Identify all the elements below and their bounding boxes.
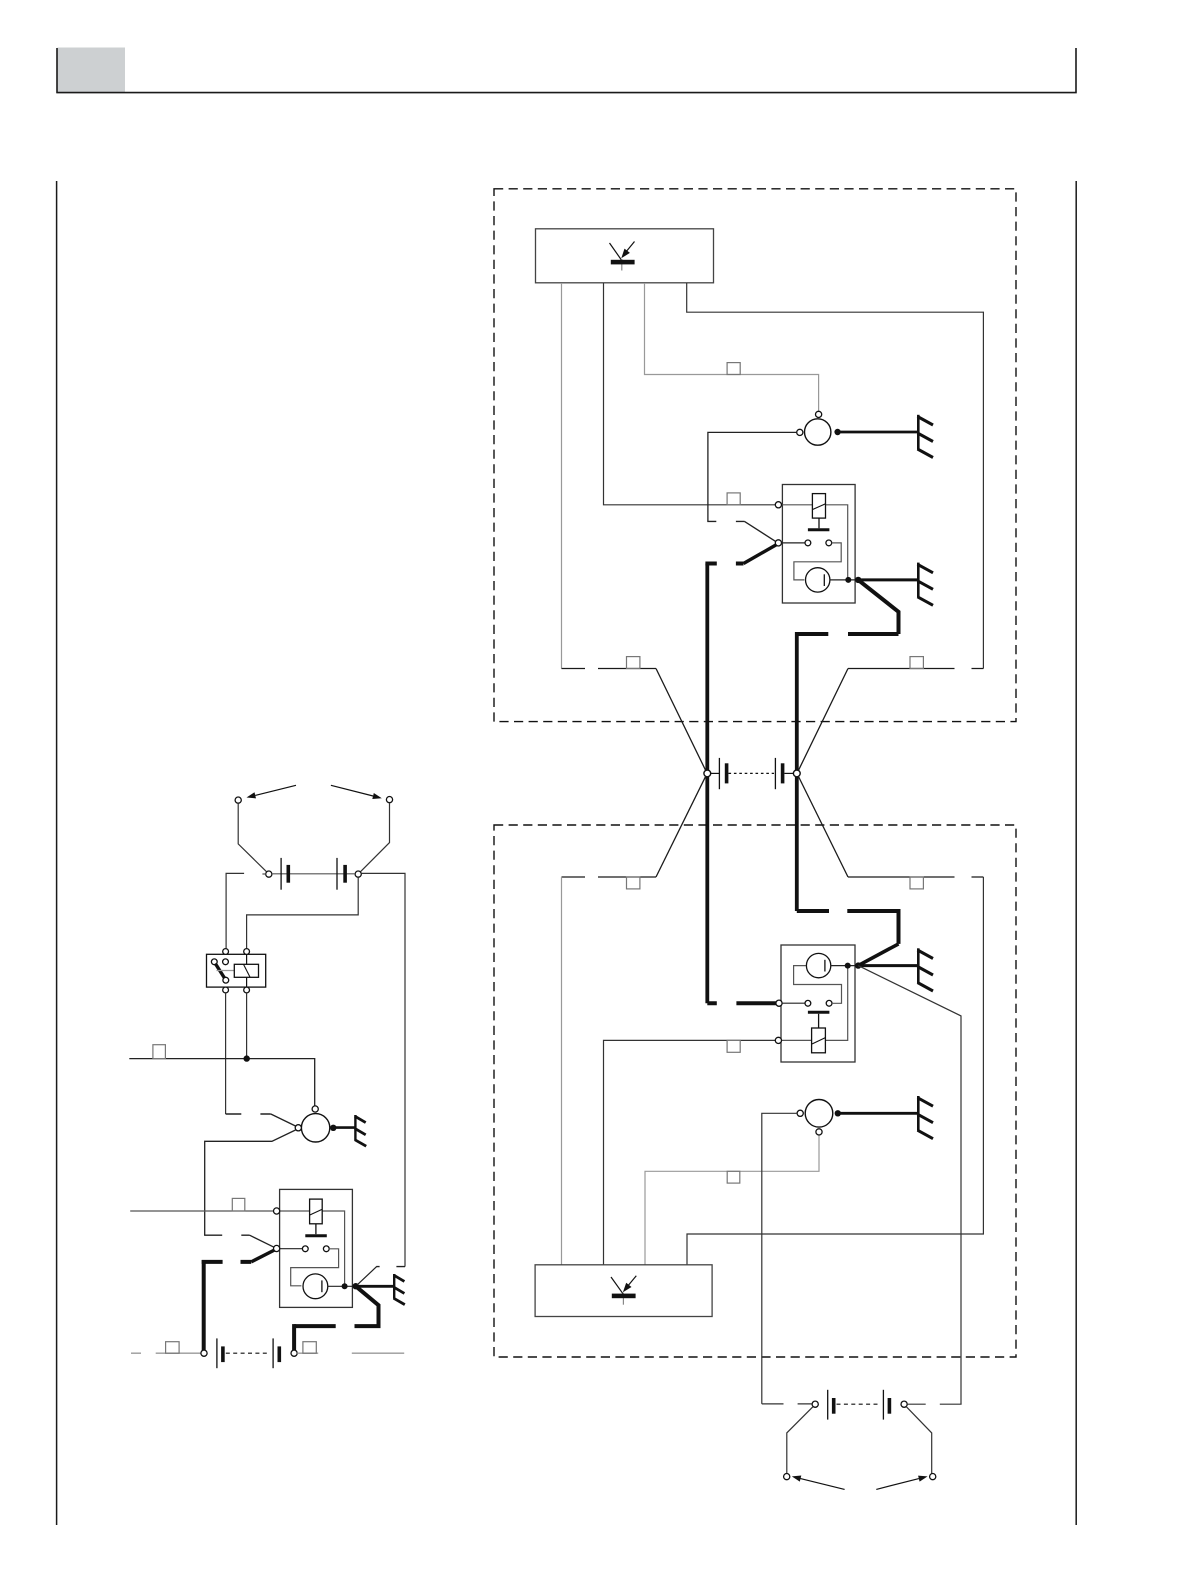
relay motor (bottom) [806,953,830,977]
junction dot (outer) [855,577,861,583]
junction dot [244,1055,250,1061]
relay terminal bottom-right [244,987,250,993]
funnel wire left [656,776,706,877]
motor terminal bottom [816,1129,822,1135]
connector square [627,877,640,889]
coil feed wire through box (bottom) [779,968,848,1041]
coil terminal (left relay) [274,1208,280,1214]
top rule [57,48,1077,93]
contact terminal (left relay) [274,1245,280,1251]
funnel wire left [656,669,706,771]
wire from relay to junction dot [246,993,248,1059]
connector square [910,657,923,669]
motor terminal top [816,411,822,417]
switch pivot [211,959,217,965]
relay terminal top-left [223,949,229,955]
bottom box top edge, left connector [562,876,657,878]
funnel wire right [798,669,848,771]
arm end contact [223,977,229,983]
junction dot (inner) [342,1283,348,1289]
contact wire [280,1248,303,1250]
contact b (bottom) [826,1000,832,1006]
relay terminal top-right [244,949,250,955]
mirror face terminal left [784,1474,790,1480]
left bracket of battery connector [226,873,244,948]
left page border [56,181,58,1525]
battery connector (bottom) right bracket [907,1403,961,1405]
bottom feed line right segments [297,1352,404,1354]
thick wire down to battery (left relay) [202,1260,206,1351]
free motor (bottom box) [805,1100,833,1128]
junction dot [330,1125,336,1131]
battery symbol (bottom) [827,1390,829,1420]
funnel wire right [798,776,848,877]
right thick vertical [795,632,799,911]
connector square on sw2 [727,493,740,505]
mirror arrow right (bottom) [876,1479,919,1490]
connector square on sw3 [727,1171,740,1183]
left motor top terminal [312,1106,318,1112]
wire sw2 (to relay coil, top) [604,283,776,505]
ground lead (top motor) [840,431,918,434]
wire sw3 (to motor, top) [645,283,819,411]
right side wires of battery connector [361,873,405,1266]
ground lead (bottom motor) [840,1112,918,1115]
mirror arrow left (bottom) [801,1479,845,1490]
left thick vertical [705,564,709,1004]
wire sw4 (right loop, top) [687,283,984,669]
coil ground inside box (left relay) [315,1224,317,1234]
junction dot (inner) [845,963,851,969]
coil terminal (top relay) [775,502,781,508]
wire motor-left down to battery [762,1113,797,1404]
connector square on feed line [153,1045,166,1059]
coil ground inside box (bottom) [818,1014,820,1028]
battery connector circle right [355,871,361,877]
motor terminal left [797,1110,803,1116]
contact a (left relay) [302,1246,308,1252]
connector circle [901,1401,907,1407]
header tab [58,48,126,94]
wire sw3 (to motor, bottom) [645,1135,819,1265]
connector square on sw3 [727,363,740,375]
relay motor (top) [806,568,830,592]
connector square [166,1342,180,1354]
battery connector circle left [266,871,272,877]
contact b (left relay) [323,1246,329,1252]
ground (bottom motor) [918,1096,934,1139]
mirror switch unit box (top) [536,229,714,283]
top box bottom edge, left connector [562,668,657,670]
thick branch down right (left relay) [356,1286,379,1326]
thin diagonal with break up to right wire [357,1267,377,1286]
contact terminal (top relay) [775,540,781,546]
bottom feed line (left circuit) [131,1352,201,1354]
contact terminal (bottom relay) [776,1000,782,1006]
switch arm [215,964,225,979]
motor terminal left [797,429,803,435]
wire from relay to junction (left) [225,993,227,1114]
relay coil (left box) [234,964,258,977]
coil terminal (bottom relay) [775,1037,781,1043]
adjust symbol (bottom unit) [611,1276,636,1305]
junction dot [835,1110,841,1116]
ground (left relay) [394,1274,405,1305]
mirror relay box (top) [782,485,855,604]
ground (bottom relay) [918,948,934,991]
ground (left motor) [355,1115,366,1146]
battery connector circle right [291,1350,297,1356]
wire motor-left to break (top) [708,432,797,521]
switch arm wire to contact terminal (top) [745,521,777,541]
ground (top relay) [918,563,934,606]
ground lead (bottom relay) [858,964,918,967]
junction dot (inner) [845,577,851,583]
thick branch to right vertical (top) [858,580,898,634]
mirror switch unit box (bottom) [535,1265,712,1317]
harness break to motor-left (left circuit) [226,1113,271,1115]
relay motor right wire [831,965,858,967]
relay motor right wire [830,579,858,581]
mirror face terminal left (top assembly) [235,797,241,803]
drop wire right [906,1407,932,1474]
junction dot [834,429,840,435]
relay coil (left relay) [310,1199,323,1224]
inline connector right half [774,758,776,789]
wire sw2 (to relay coil, bottom) [604,1040,776,1264]
mirror face terminal right [930,1474,936,1480]
changeover relay box (left) [207,954,266,987]
ground lead (left relay) [357,1285,394,1288]
relay coil (top) [812,494,825,518]
coil link [217,970,235,972]
wire motor-left to relay (left circuit) [205,1130,296,1235]
battery symbol (left circuit bottom) [216,1338,218,1368]
fixed contact inner [223,959,229,965]
coil ground inside box (top) [818,518,820,528]
contact a (bottom) [805,1000,811,1006]
inline connector left half [711,772,719,774]
wire sw1 (gray, top) [561,283,563,669]
relay terminal bottom-left [223,987,229,993]
coil feed wire through box (top) [779,505,848,578]
drop wire left [238,803,266,872]
junction dot (outer) [353,1283,359,1289]
thin diagonal to lower right wire [858,966,961,1405]
drop wire left [787,1407,813,1474]
bottom box top edge, right connector [848,876,983,878]
switch arm wire to contact terminal (left relay) [250,1235,275,1247]
thick stubs to contact terminal (left relay) [202,1260,252,1264]
ground (top motor) [918,415,934,458]
thick stubs to contact terminal (bottom) [707,1001,776,1005]
wire sw4 (right loop, bottom) [687,877,983,1265]
left motor [301,1114,329,1142]
contact b to relay motor loop (left relay) [291,1249,339,1286]
wire through coil [246,954,248,987]
ground lead (top relay) [858,578,918,581]
thick stubs to contact terminal (top) [705,562,743,566]
adjust symbol (top unit) [610,242,635,271]
harness break stubs (thin, left relay) [204,1234,250,1236]
relay coil (bottom) [812,1028,826,1053]
battery connector circle left [201,1350,207,1356]
wire sw1 (gray, bottom) [561,877,563,1265]
relay motor right wire [328,1285,356,1287]
drop wire right [361,803,390,872]
dashed box: driver side (bottom) [494,825,1016,1357]
connector circle [812,1401,818,1407]
top box bottom edge, right connector [848,668,983,670]
thick branch from right vertical (bottom) [797,909,829,913]
dashed box: passenger side (top) [494,189,1016,722]
battery connector (bottom) left bracket [762,1403,812,1405]
driver mirror relay box (left circuit) [280,1189,353,1307]
harness break stubs (thin, top) [707,520,744,522]
connector square on sw2 [727,1040,740,1052]
connector square [910,877,923,889]
mirror arrow left (top assembly) [255,785,296,795]
mirror arrow right (top assembly) [331,785,373,796]
feed line with junction [129,1059,314,1106]
contact wire [782,1002,805,1004]
ground lead (left motor) [336,1126,355,1129]
relay motor (left relay) [303,1274,328,1299]
mirror vertical motor (top) [805,419,831,445]
contact b to relay motor loop (bottom) [794,966,842,1004]
contact wire [782,542,805,544]
inline connector circles [704,770,711,777]
inline connector dotted link [729,772,775,774]
contact b [826,540,832,546]
left motor left terminal [295,1125,301,1131]
mirror relay box (bottom) [781,945,855,1062]
coil feed wire (left circuit) [130,1211,344,1284]
battery symbol (left circuit) [262,873,355,875]
connector square [303,1342,316,1354]
contact a [805,540,811,546]
connector square on coil feed [232,1198,245,1211]
right page border [1075,181,1077,1525]
junction dot (outer) [855,962,861,968]
contact b to relay motor loop (top) [794,543,841,580]
mirror face terminal right (top assembly) [386,797,392,803]
connector square [627,657,640,669]
